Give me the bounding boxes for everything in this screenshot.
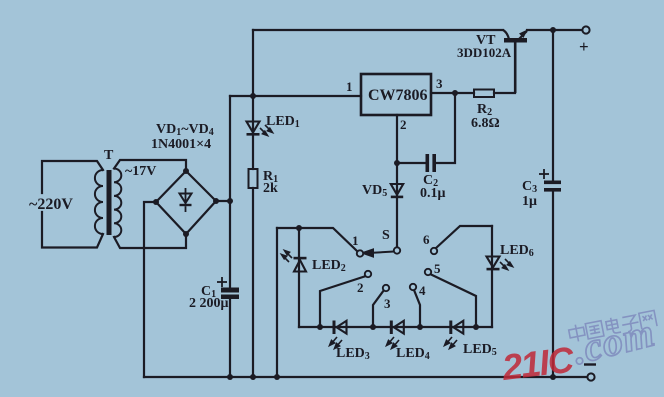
node contact 5 <box>425 269 431 275</box>
svg-text:~220V: ~220V <box>29 196 73 213</box>
watermark .com <box>568 309 659 373</box>
base lead <box>515 43 517 94</box>
svg-text:6: 6 <box>423 232 430 247</box>
电 <box>605 316 621 334</box>
svg-text:2 200μ: 2 200μ <box>189 296 229 311</box>
junction: DC+ line at bridge output <box>227 198 233 204</box>
LED LED6 symbol <box>487 257 500 271</box>
junction: R1 column on bottom rail <box>250 374 256 380</box>
wire: bridge left vertex to x=144 vertical down to bottom rail <box>144 202 156 377</box>
junction: pin2 / C2 node <box>394 160 400 166</box>
wire: contact4 drop <box>414 290 420 327</box>
wire: R2 right to transistor base <box>494 43 515 93</box>
子 <box>621 315 640 333</box>
label - output dash <box>584 363 596 365</box>
wire: contact2 drop <box>320 276 366 327</box>
wire: C2 left to pin2 line <box>397 162 425 164</box>
svg-text:+: + <box>579 37 589 56</box>
junction: C3 on bottom rail <box>550 374 556 380</box>
wire: pin3 to R2 junction <box>431 92 474 94</box>
transformer T core <box>107 170 112 235</box>
transformer T primary winding <box>95 170 103 234</box>
LED LED2 symbol <box>294 257 307 272</box>
junction: ground return on bottom rail <box>274 374 280 380</box>
svg-text:2: 2 <box>357 280 364 295</box>
svg-text:T: T <box>104 148 114 163</box>
wire: LED2 column <box>298 228 300 327</box>
collector lead curve <box>503 30 509 39</box>
node contact 1 <box>357 250 363 256</box>
LED2 emission arrows (up-left) <box>282 251 293 263</box>
wire: VD5 to switch pole <box>396 199 398 247</box>
LED LED4 symbol <box>390 321 404 335</box>
wire: below C1 to bottom rail <box>229 299 231 377</box>
wire: ground return vertical x=277 <box>276 228 278 377</box>
wire: LED1 column upper segment <box>252 96 254 133</box>
wire: C3 column upper segment <box>552 30 554 181</box>
wire: pin2 vertical to VD5 <box>396 115 398 196</box>
svg-text:1μ: 1μ <box>522 194 537 209</box>
svg-text:4: 4 <box>419 283 426 298</box>
IC U1 CW7806 box <box>361 74 431 115</box>
wire: contact6 to LED6 column <box>436 226 492 248</box>
wire: contact5 drop <box>430 274 476 327</box>
capacitor C3 (electrolytic) <box>544 181 561 192</box>
svg-text:S: S <box>382 228 390 243</box>
svg-text:5: 5 <box>434 261 441 276</box>
wire: LED6 column <box>491 226 493 327</box>
wire: bridge right vertex to main vertical <box>216 200 230 202</box>
svg-text:2: 2 <box>400 117 407 132</box>
resistor R1 <box>249 169 258 188</box>
junction: bus / contact2 drop <box>317 324 323 330</box>
wire: contact3 drop <box>373 290 384 327</box>
wire: pin1 horizontal rail <box>230 95 361 97</box>
wire: LED bus bottom <box>299 326 492 328</box>
junction: C1 on bottom rail <box>227 374 233 380</box>
LED LED1 symbol <box>247 122 260 136</box>
watermark 21IC <box>499 338 577 388</box>
wire: vertical drop x=253 top rail to pin1 rail <box>252 30 254 96</box>
base bar <box>504 38 527 43</box>
svg-text:3: 3 <box>384 296 391 311</box>
output terminal - <box>587 373 594 380</box>
C3 plus sign <box>539 169 549 179</box>
svg-text:0.1μ: 0.1μ <box>420 186 446 201</box>
LED LED5 symbol <box>449 321 463 335</box>
wire: main DC+ vertical x=230 down to C1 <box>229 96 231 288</box>
LED LED3 symbol (on bus, pointing left) <box>333 321 347 335</box>
transformer T secondary winding <box>114 169 121 238</box>
wire: bridge bottom vertex down and left horizontal <box>114 234 186 248</box>
svg-text:6.8Ω: 6.8Ω <box>471 116 500 131</box>
svg-text:1N4001×4: 1N4001×4 <box>151 137 211 152</box>
svg-text:CW7806: CW7806 <box>368 87 428 104</box>
svg-text:21IC: 21IC <box>499 338 577 388</box>
svg-text:LED4: LED4 <box>396 346 430 362</box>
emitter lead with arrow <box>518 31 527 40</box>
svg-text:LED5: LED5 <box>463 342 497 358</box>
LED4 emission arrows (down-left) <box>387 337 400 349</box>
wire: C2 right branch <box>436 93 455 163</box>
junction: bridge top vertex <box>183 168 189 174</box>
LED3 emission arrows (down-left) <box>330 337 343 349</box>
bridge rectifier VD1-VD4 diamond <box>156 171 216 234</box>
svg-text:2k: 2k <box>263 181 278 196</box>
node contact 2 <box>365 271 371 277</box>
svg-text:C3: C3 <box>522 179 537 195</box>
junction: bus / contact5 drop <box>473 324 479 330</box>
capacitor C2 <box>426 154 437 172</box>
resistor R2 <box>474 90 494 98</box>
wire: bottom ground rail <box>144 376 591 378</box>
wire: C3 column lower segment <box>552 192 554 377</box>
svg-text:LED3: LED3 <box>336 346 370 362</box>
node contact 4 <box>410 284 416 290</box>
junction: bridge left vertex <box>153 199 159 205</box>
svg-text:~17V: ~17V <box>125 164 156 179</box>
svg-text:3: 3 <box>436 76 443 91</box>
svg-text:LED6: LED6 <box>500 243 534 259</box>
wire: R1 to bottom rail segment <box>252 188 254 377</box>
watermark 中国电子网 (hand-drawn strokes) <box>568 309 657 342</box>
wire: LED1 to R1 segment <box>252 136 254 169</box>
node contact 6 <box>431 248 437 254</box>
wire: transformer primary loop upper <box>42 161 103 193</box>
wire: emitter rail to + terminal <box>527 29 582 31</box>
transistor VT (3DD102A) <box>503 30 528 94</box>
svg-text:3DD102A: 3DD102A <box>457 45 512 60</box>
svg-text:LED1: LED1 <box>266 114 300 130</box>
junction: LED1 branch on pin1 rail <box>250 93 256 99</box>
junction: switch corner / LED2 top <box>296 225 302 231</box>
diode VD5 <box>391 184 403 198</box>
LED1 emission arrows <box>260 125 273 136</box>
wire: contact1 to top-left corner <box>277 228 357 251</box>
国 <box>585 321 604 339</box>
capacitor C1 (electrolytic) <box>221 288 239 300</box>
bridge inner diode symbol <box>180 194 192 207</box>
node contact 3 <box>383 285 389 291</box>
svg-text:1: 1 <box>352 233 359 248</box>
switch contact circles <box>357 247 437 291</box>
中 <box>568 323 586 343</box>
svg-text:VD5: VD5 <box>362 183 387 199</box>
svg-text:VD1~VD4: VD1~VD4 <box>156 122 214 138</box>
LED6 emission arrows (down-right) <box>500 259 513 270</box>
junction: bridge right vertex <box>213 198 219 204</box>
junction: bridge bottom vertex <box>183 231 189 237</box>
junction: bus / contact4 drop <box>417 324 423 330</box>
junction: pin3 node <box>452 90 458 96</box>
svg-text:LED2: LED2 <box>312 258 346 274</box>
svg-text:1: 1 <box>346 79 353 94</box>
svg-text:.com: .com <box>568 309 659 373</box>
C1 plus sign <box>217 277 227 287</box>
LED5 emission arrows (down-left) <box>445 337 458 349</box>
wire: secondary top to bridge top vertex <box>114 160 186 171</box>
switch S arm with arrow <box>363 250 394 257</box>
junction: emitter rail / C3 top <box>550 27 556 33</box>
网 <box>639 310 657 329</box>
wire: transformer primary loop lower <box>42 212 103 248</box>
wire: top rail from LED1 column to transistor collector <box>253 29 503 31</box>
junction: bus / contact3 drop <box>370 324 376 330</box>
node S pole <box>394 247 400 253</box>
output terminal + <box>582 26 589 33</box>
